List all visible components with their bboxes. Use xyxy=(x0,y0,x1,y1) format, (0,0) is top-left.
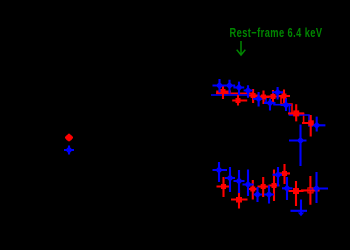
svg-text:Rest−frame 6.4 keV: Rest−frame 6.4 keV xyxy=(230,25,323,40)
